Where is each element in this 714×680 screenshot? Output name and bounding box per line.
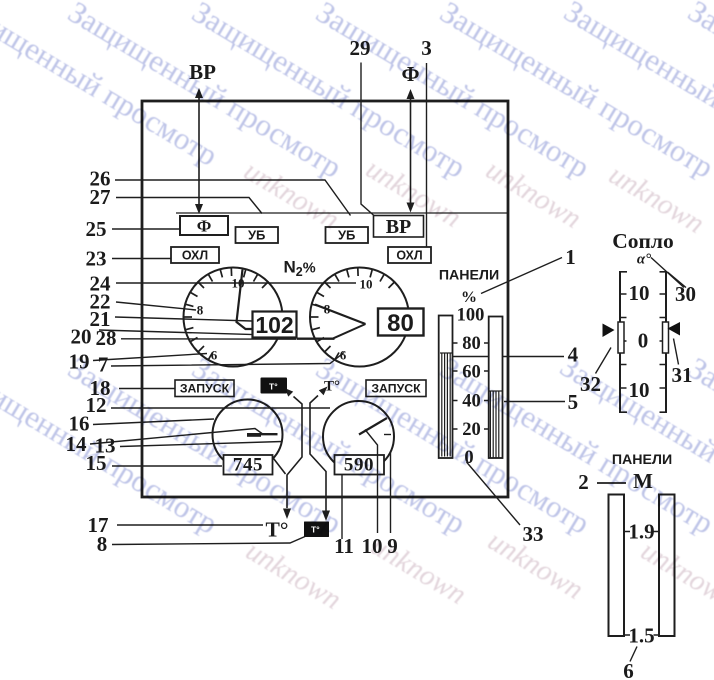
svg-text:Т°: Т° bbox=[266, 518, 289, 542]
svg-text:1.5: 1.5 bbox=[628, 624, 654, 648]
svg-text:УБ: УБ bbox=[338, 228, 355, 243]
svg-text:unknown: unknown bbox=[240, 535, 346, 616]
svg-text:102: 102 bbox=[255, 312, 293, 338]
svg-text:80: 80 bbox=[462, 334, 481, 354]
svg-text:25: 25 bbox=[86, 217, 107, 241]
svg-text:1: 1 bbox=[565, 245, 576, 269]
svg-text:unknown: unknown bbox=[365, 530, 471, 611]
svg-text:10: 10 bbox=[232, 276, 245, 291]
svg-text:N2%: N2% bbox=[284, 258, 316, 280]
svg-text:2: 2 bbox=[578, 470, 589, 494]
svg-text:ВР: ВР bbox=[386, 216, 412, 238]
svg-text:α°: α° bbox=[637, 252, 651, 268]
svg-text:8: 8 bbox=[197, 303, 204, 318]
svg-text:20: 20 bbox=[71, 325, 92, 349]
svg-text:УБ: УБ bbox=[248, 228, 265, 243]
svg-text:Сопло: Сопло bbox=[612, 229, 673, 253]
svg-text:8: 8 bbox=[97, 532, 108, 556]
svg-text:Ф: Ф bbox=[197, 217, 212, 236]
svg-text:27: 27 bbox=[90, 185, 111, 209]
svg-text:80: 80 bbox=[387, 310, 414, 337]
svg-text:5: 5 bbox=[568, 390, 579, 414]
svg-text:10: 10 bbox=[629, 281, 650, 305]
svg-text:ОХЛ: ОХЛ bbox=[182, 249, 208, 263]
svg-text:8: 8 bbox=[324, 302, 331, 317]
svg-text:ПАНЕЛИ: ПАНЕЛИ bbox=[439, 268, 499, 284]
svg-text:100: 100 bbox=[457, 306, 485, 326]
svg-text:0: 0 bbox=[638, 329, 649, 353]
svg-text:%: % bbox=[461, 289, 477, 306]
svg-text:6: 6 bbox=[623, 659, 634, 680]
svg-text:10: 10 bbox=[360, 277, 373, 292]
svg-text:23: 23 bbox=[86, 247, 107, 271]
svg-text:11: 11 bbox=[334, 534, 354, 558]
svg-text:ОХЛ: ОХЛ bbox=[396, 249, 422, 263]
svg-text:28: 28 bbox=[96, 326, 117, 350]
svg-text:30: 30 bbox=[675, 282, 696, 306]
